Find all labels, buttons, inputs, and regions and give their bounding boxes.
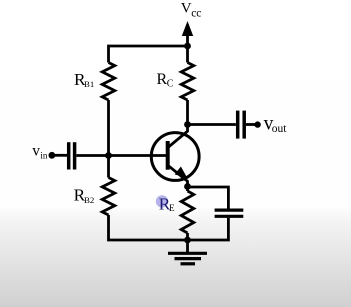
wire top rail from RB1 branch to Vcc node <box>109 46 188 63</box>
wire Cout to vout terminal <box>246 123 258 126</box>
capacitor Cout right plate <box>242 111 246 139</box>
svg-text:B1: B1 <box>84 79 94 89</box>
capacitor Cin left plate <box>67 142 71 169</box>
label RE highlight circle <box>156 195 168 207</box>
svg-text:cc: cc <box>191 8 201 20</box>
junction dot base/vin node <box>105 152 112 159</box>
transistor Q1 base bar <box>166 141 170 170</box>
capacitor CE top plate <box>215 209 244 212</box>
capacitor Cout left plate <box>236 111 240 139</box>
junction dot emitter node <box>184 183 191 190</box>
resistor RE <box>181 191 194 233</box>
Vcc arrowhead <box>182 21 193 36</box>
transistor Q1 emitter lead <box>169 166 188 187</box>
wire collector node to output capacitor <box>188 123 236 126</box>
resistor RC <box>181 63 194 101</box>
transistor Q1 body circle <box>151 133 199 181</box>
label Vcc <box>181 1 202 20</box>
junction dot bottom rail / ground node <box>184 237 191 244</box>
svg-text:E: E <box>169 203 175 213</box>
wire Vcc stem <box>186 33 189 46</box>
terminal dot vin <box>49 152 56 159</box>
ground bar 2 <box>175 257 202 260</box>
svg-text:in: in <box>40 150 48 160</box>
ground bar 1 <box>168 252 207 255</box>
label RB1 <box>74 70 94 89</box>
ground bar 3 <box>181 262 196 265</box>
wire input capacitor to base <box>76 154 166 157</box>
transistor Q1 collector lead <box>169 125 188 148</box>
wire vin terminal to input capacitor <box>52 154 67 157</box>
svg-text:V: V <box>181 1 192 17</box>
svg-text:C: C <box>167 79 174 90</box>
capacitor CE bottom plate <box>215 215 244 218</box>
svg-text:B2: B2 <box>84 195 94 205</box>
capacitor Cin right plate <box>73 142 77 169</box>
wire RB2 to bottom rail <box>109 215 188 240</box>
wire RE to bottom rail <box>186 233 189 240</box>
label vin <box>32 143 48 161</box>
junction dot Vcc node <box>184 43 191 50</box>
terminal dot vout <box>254 121 260 127</box>
wire vin node to RB2 <box>107 156 110 178</box>
label RC <box>157 71 174 90</box>
wire RC branch upper segment <box>186 46 189 63</box>
resistor RB2 <box>102 178 115 216</box>
wire emitter node to RE <box>186 187 189 192</box>
svg-text:v: v <box>32 143 40 160</box>
wire RC to collector node <box>186 100 189 125</box>
junction dot collector node <box>184 121 191 128</box>
label vout <box>264 113 288 135</box>
transistor Q1 emitter arrowhead <box>175 167 188 179</box>
label RE <box>159 195 175 214</box>
label RB2 <box>74 186 95 206</box>
svg-text:out: out <box>272 123 288 135</box>
resistor RB1 <box>102 63 115 101</box>
ground stem <box>186 240 189 252</box>
wire CE to bottom rail <box>188 218 229 240</box>
wire RB1 to vin node <box>107 100 110 156</box>
wire emitter node to bypass branch <box>188 187 229 209</box>
